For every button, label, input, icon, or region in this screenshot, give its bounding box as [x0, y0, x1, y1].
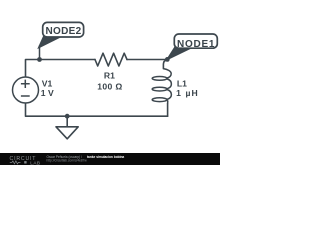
- svg-text:NODE2: NODE2: [46, 26, 82, 37]
- svg-text:V1: V1: [42, 79, 53, 89]
- svg-text:tanke simulacion bobina: tanke simulacion bobina: [87, 155, 124, 159]
- svg-text:NODE1: NODE1: [177, 39, 215, 50]
- svg-text:L1: L1: [177, 78, 187, 88]
- svg-text:100 Ω: 100 Ω: [97, 81, 122, 91]
- svg-text:R1: R1: [104, 70, 115, 80]
- svg-text:1 V: 1 V: [41, 88, 54, 98]
- svg-text:LAB: LAB: [30, 160, 40, 165]
- svg-text:http://circuitlab.com/c/4e87w: http://circuitlab.com/c/4e87w: [47, 158, 88, 162]
- svg-text:1 µH: 1 µH: [176, 88, 199, 98]
